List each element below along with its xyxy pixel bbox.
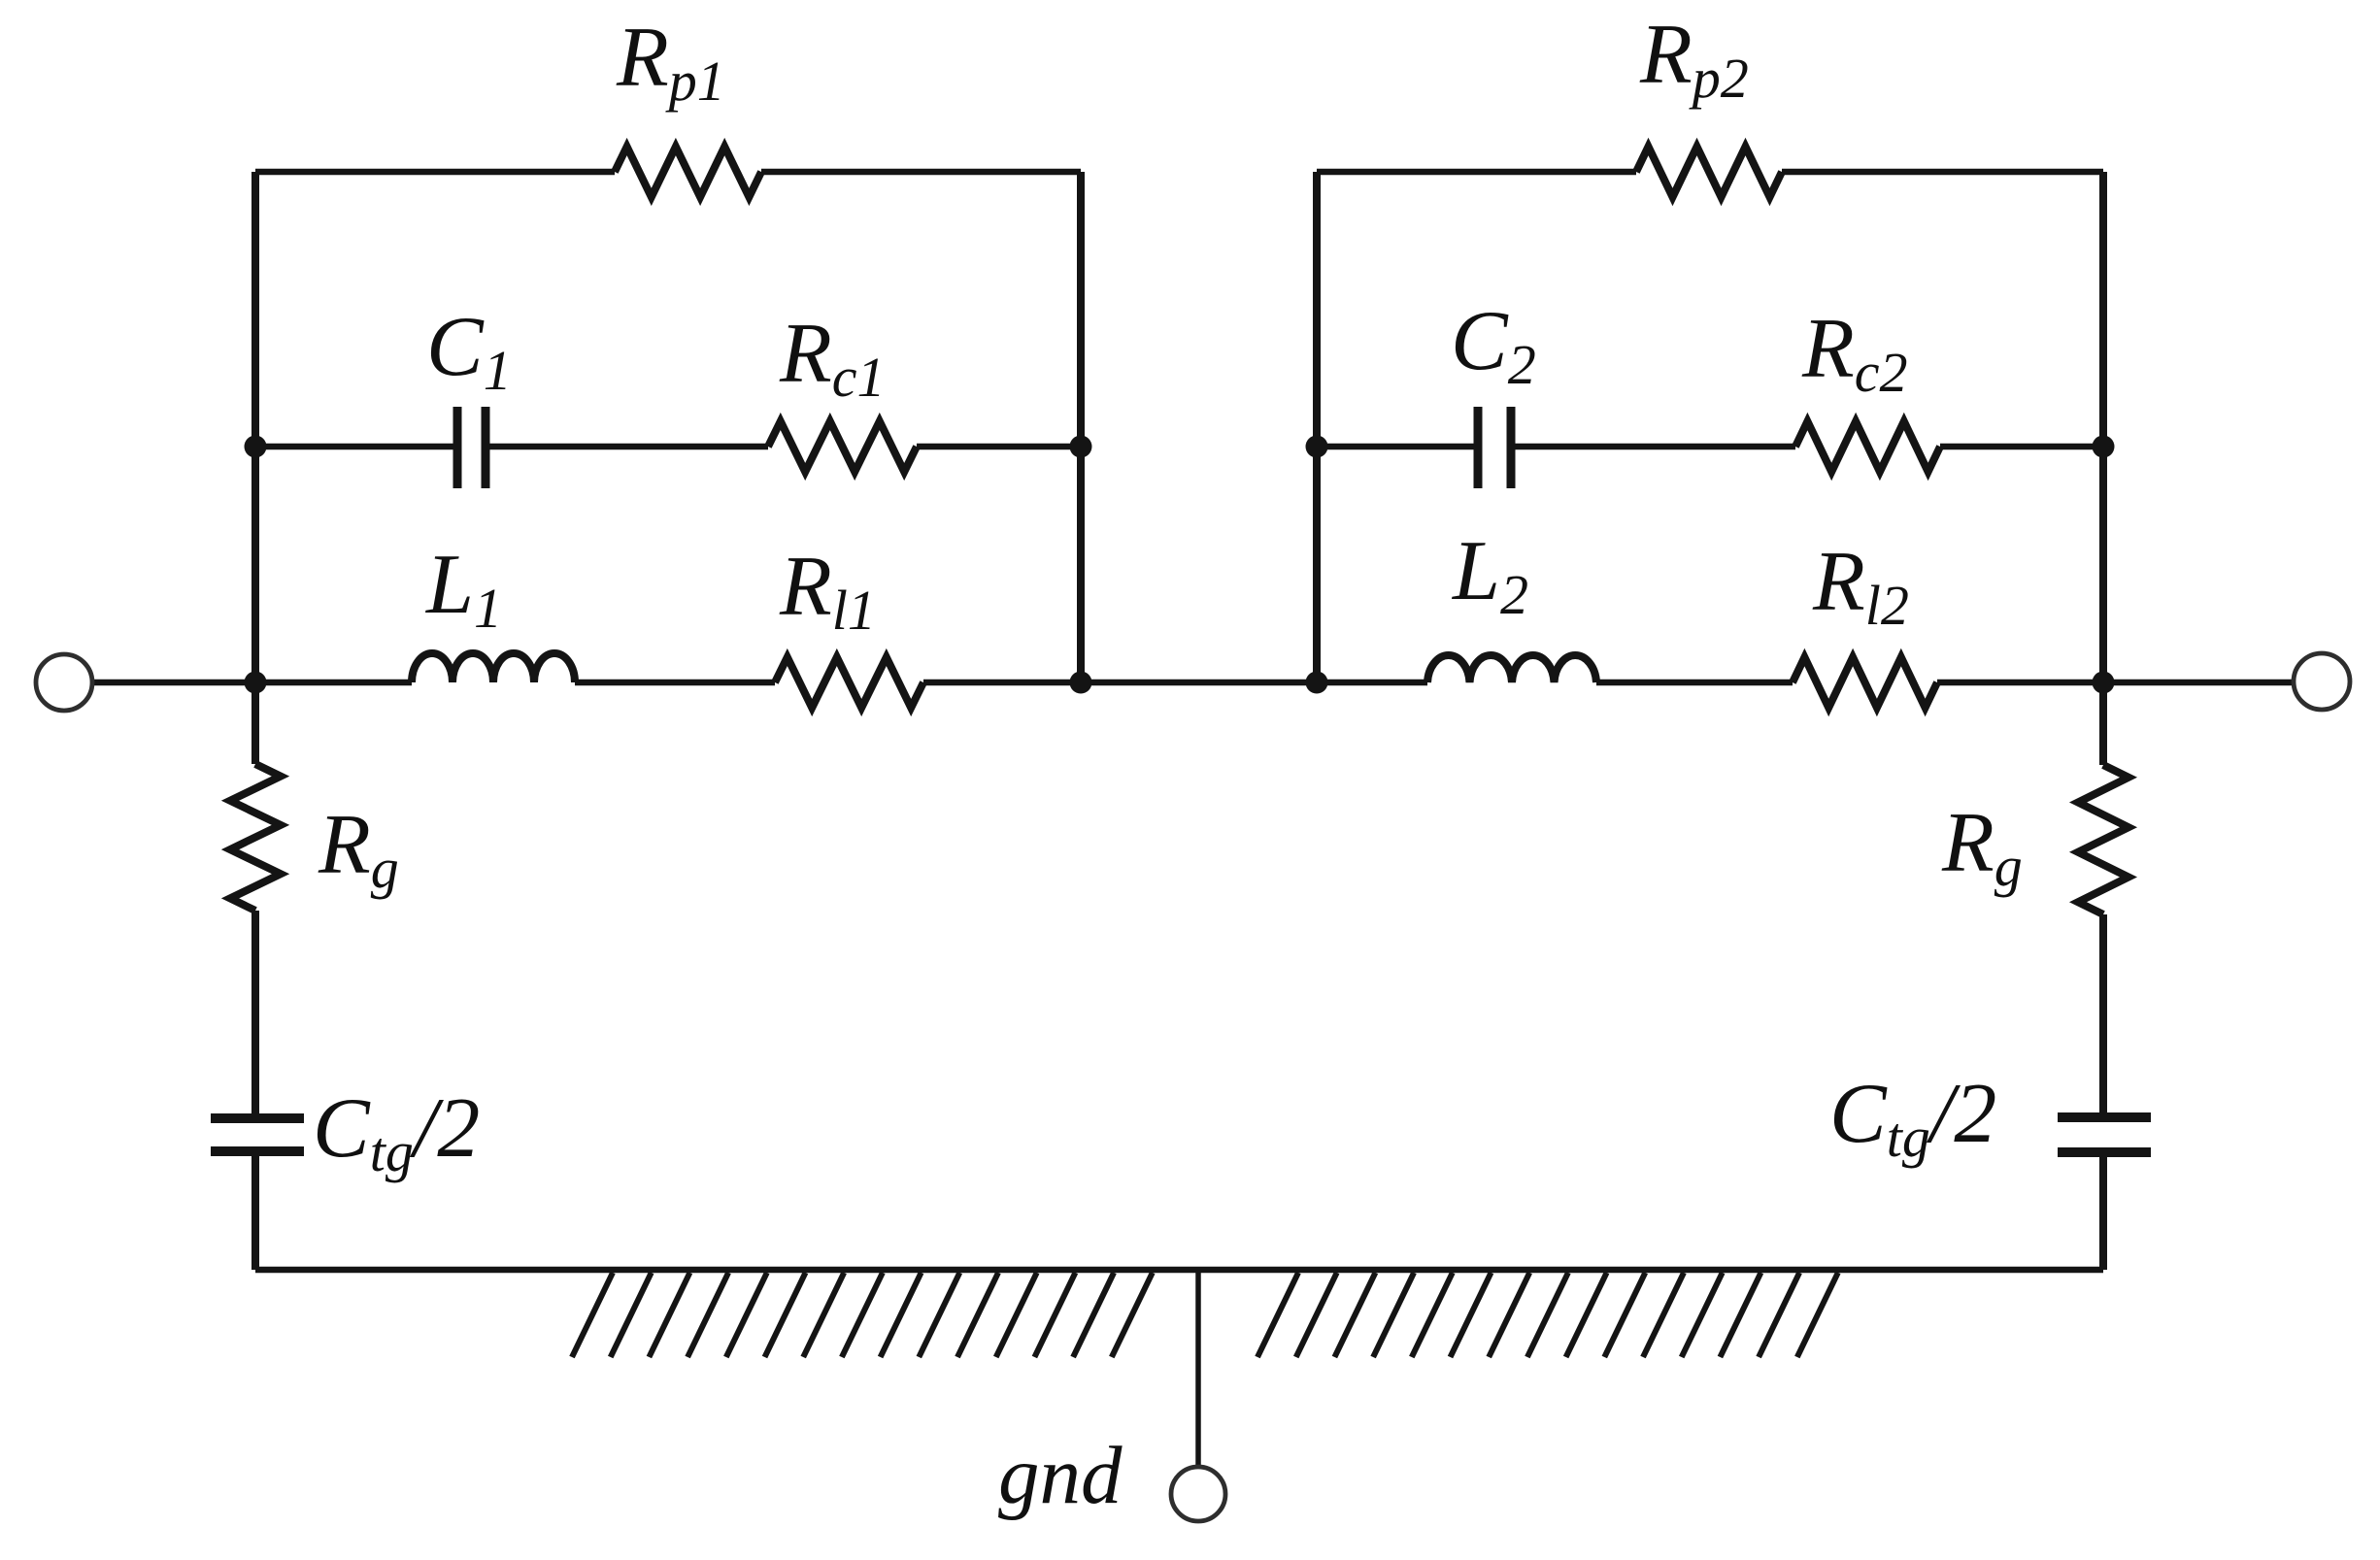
- wire: main line between sections: [255, 680, 1317, 686]
- junction dot: node inner-right-rail / middle branch: [1306, 436, 1328, 458]
- resistor Rc2: [1795, 421, 1940, 472]
- ground line: [255, 1267, 2103, 1274]
- capacitor Ctg/2 (right): [2058, 1117, 2151, 1152]
- junction dot: node inner-left-rail / main line: [1070, 672, 1092, 694]
- capacitor Ctg/2 (left): [211, 1118, 304, 1151]
- wire: left section left rail: [251, 172, 259, 682]
- wire: left section right rail: [1077, 172, 1085, 682]
- wire: main line to right terminal: [2103, 680, 2294, 686]
- wire: left middle branch: [255, 444, 1081, 450]
- wire: node A down to Rg: [251, 682, 259, 764]
- junction dot: node B (right rail / main line): [2093, 672, 2115, 694]
- terminal: port 1 (left): [36, 654, 92, 711]
- wire: right section top branch: [1317, 169, 2103, 176]
- wire: Rg to Ctg/2 (left): [251, 911, 259, 1114]
- terminal: port 2 (right): [2294, 653, 2350, 710]
- wire: main line right section: [1317, 680, 2103, 686]
- capacitor C2: [1478, 407, 1511, 488]
- terminal: gnd: [1171, 1467, 1225, 1521]
- resistor Rp2: [1636, 147, 1782, 197]
- junction dot: node right-rail / middle branch: [2093, 436, 2115, 458]
- junction dot: node A (left rail / main line): [245, 672, 267, 694]
- resistor Rl2: [1793, 657, 1937, 708]
- wire: Ctg/2 to ground line (right): [2099, 1157, 2107, 1270]
- capacitor C1: [457, 407, 486, 488]
- wire: gnd stub: [1195, 1270, 1201, 1466]
- svg-text:gnd: gnd: [998, 1430, 1123, 1521]
- junction dot: node inner-right-rail / main line: [1306, 672, 1328, 694]
- wire: node B down to Rg: [2099, 682, 2107, 765]
- wire: main line left terminal to node A: [92, 680, 255, 686]
- wire: Ctg/2 to ground line (left): [251, 1156, 259, 1270]
- junction dot: node inner-left-rail / middle branch: [1070, 436, 1092, 458]
- wire: right middle branch: [1317, 444, 2103, 450]
- wire: right section right rail: [2099, 172, 2107, 682]
- resistor Rc1: [768, 421, 917, 472]
- resistor Rg (right): [2078, 765, 2129, 914]
- wire: right section left rail: [1313, 172, 1321, 682]
- junction dot: node left-rail / middle branch: [245, 436, 267, 458]
- resistor Rg (left): [230, 764, 281, 911]
- wire: Rg to Ctg/2 (right): [2099, 914, 2107, 1113]
- inductor L2: [1427, 655, 1596, 682]
- resistor Rp1: [615, 147, 761, 197]
- ground hatching right: [1257, 1273, 1838, 1357]
- ground hatching left: [572, 1273, 1153, 1357]
- inductor L1: [412, 653, 575, 682]
- resistor Rl1: [775, 657, 923, 708]
- wire: left section top branch: [255, 169, 1081, 176]
